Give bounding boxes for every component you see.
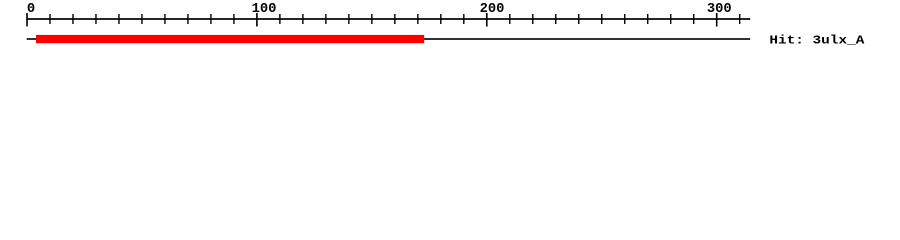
node: minor tick 90	[233, 14, 234, 24]
node: minor tick 110	[279, 14, 280, 24]
node: minor tick 250	[601, 14, 602, 24]
node: minor tick 270	[647, 14, 648, 24]
node: minor tick 120	[302, 14, 303, 24]
node: minor tick 50	[141, 14, 142, 24]
node: minor tick 220	[532, 14, 533, 24]
node: major tick 0	[26, 13, 28, 27]
node: minor tick 20	[72, 14, 73, 24]
svg-text:100: 100	[252, 2, 277, 17]
node: major tick 200	[486, 13, 488, 27]
node: minor tick 180	[440, 14, 441, 24]
svg-text:200: 200	[480, 2, 505, 17]
node: minor tick 310	[739, 14, 740, 24]
node: minor tick 140	[348, 14, 349, 24]
wire: query ruler line	[27, 18, 751, 20]
node: minor tick 280	[670, 14, 671, 24]
node: minor tick 130	[325, 14, 326, 24]
hit label	[769, 33, 864, 47]
node: minor tick 40	[118, 14, 119, 24]
svg-text:Hit: 3ulx_A: Hit: 3ulx_A	[769, 33, 864, 47]
node: major tick 300	[716, 13, 718, 27]
node: minor tick 150	[371, 14, 372, 24]
node: major tick 100	[256, 13, 258, 27]
node: minor tick 30	[95, 14, 96, 24]
node: minor tick 230	[555, 14, 556, 24]
svg-text:300: 300	[707, 2, 732, 17]
node: minor tick 170	[417, 14, 418, 24]
node: minor tick 160	[394, 14, 395, 24]
node: minor tick 60	[164, 14, 165, 24]
node: minor tick 190	[463, 14, 464, 24]
node: minor tick 210	[509, 14, 510, 24]
node: minor tick 290	[693, 14, 694, 24]
node: minor tick 240	[578, 14, 579, 24]
node: minor tick 70	[187, 14, 188, 24]
svg-text:0: 0	[27, 2, 35, 17]
hit alignment bar	[36, 35, 424, 43]
node: minor tick 80	[210, 14, 211, 24]
node: minor tick 260	[624, 14, 625, 24]
wire: hit line	[27, 38, 751, 40]
node: minor tick 10	[49, 14, 50, 24]
